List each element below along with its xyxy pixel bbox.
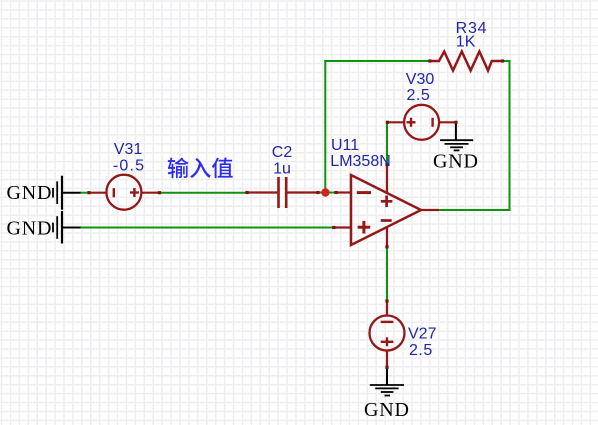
wire C2 to node A — [318, 192, 337, 194]
svg-text:V27: V27 — [408, 325, 437, 342]
svg-text:GND: GND — [7, 217, 53, 239]
pin op-amp inverting input — [336, 191, 352, 193]
ground GND1 (left, rotated bars) — [53, 176, 62, 210]
wire GND1 stub — [63, 192, 81, 194]
pin V31 left — [89, 192, 107, 194]
ground GND2 (left, rotated bars) — [53, 211, 62, 244]
wire V31 to C2 — [160, 192, 248, 194]
svg-text:V31: V31 — [114, 141, 143, 158]
svg-text:V30: V30 — [406, 71, 435, 88]
op-amp U11 — [351, 175, 421, 245]
svg-text:2.5: 2.5 — [407, 87, 431, 104]
svg-text:1K: 1K — [456, 34, 476, 51]
svg-text:C2: C2 — [272, 144, 293, 161]
svg-text:GND: GND — [7, 182, 53, 204]
wire GND2 to plus input — [80, 227, 334, 229]
pin V30 right — [439, 121, 457, 123]
svg-text:-0.5: -0.5 — [113, 157, 145, 174]
pin V31 right — [141, 192, 160, 194]
wire V30 to GND — [455, 121, 457, 140]
ground GND (V30, earth bars) — [440, 140, 473, 150]
wire GND1 to V31 — [80, 192, 89, 194]
wire node A up — [324, 60, 326, 193]
pin C2 right — [287, 191, 318, 193]
wire op-amp V- down to V27 — [386, 247, 388, 301]
voltage source V27 — [370, 316, 405, 351]
pin end hotspots — [87, 59, 504, 369]
pin op-amp V+ top — [386, 164, 388, 194]
wire R34 to right corner — [503, 61, 510, 210]
wire V30 down to op-amp V+ — [386, 123, 388, 164]
pin op-amp output — [421, 209, 439, 211]
node A junction dot — [321, 188, 329, 196]
svg-text:LM358N: LM358N — [330, 153, 390, 170]
wire V27 to GND — [386, 368, 388, 385]
svg-text:GND: GND — [433, 151, 479, 173]
wire GND2 stub — [63, 227, 81, 229]
pin V27 top — [386, 301, 388, 316]
svg-text:1u: 1u — [273, 160, 291, 177]
ground GND (V27, earth bars) — [370, 385, 404, 396]
pin C2 left — [247, 191, 278, 193]
svg-text:2.5: 2.5 — [409, 342, 433, 359]
wire top feedback horizontal — [324, 60, 429, 62]
resistor R34 — [430, 52, 503, 71]
voltage source V30 — [404, 105, 439, 140]
wire — [80, 60, 511, 301]
wire output to feedback — [439, 209, 511, 211]
net label 输入值 (input value) — [168, 157, 233, 178]
pin op-amp V- bottom — [386, 227, 388, 248]
pin op-amp non-inverting input — [333, 226, 351, 228]
pin V30 left — [387, 121, 405, 123]
svg-text:U11: U11 — [331, 137, 359, 154]
voltage source V31 — [106, 175, 141, 210]
capacitor C2 — [279, 177, 287, 208]
pin V27 bottom — [386, 350, 388, 368]
svg-text:GND: GND — [364, 399, 410, 421]
